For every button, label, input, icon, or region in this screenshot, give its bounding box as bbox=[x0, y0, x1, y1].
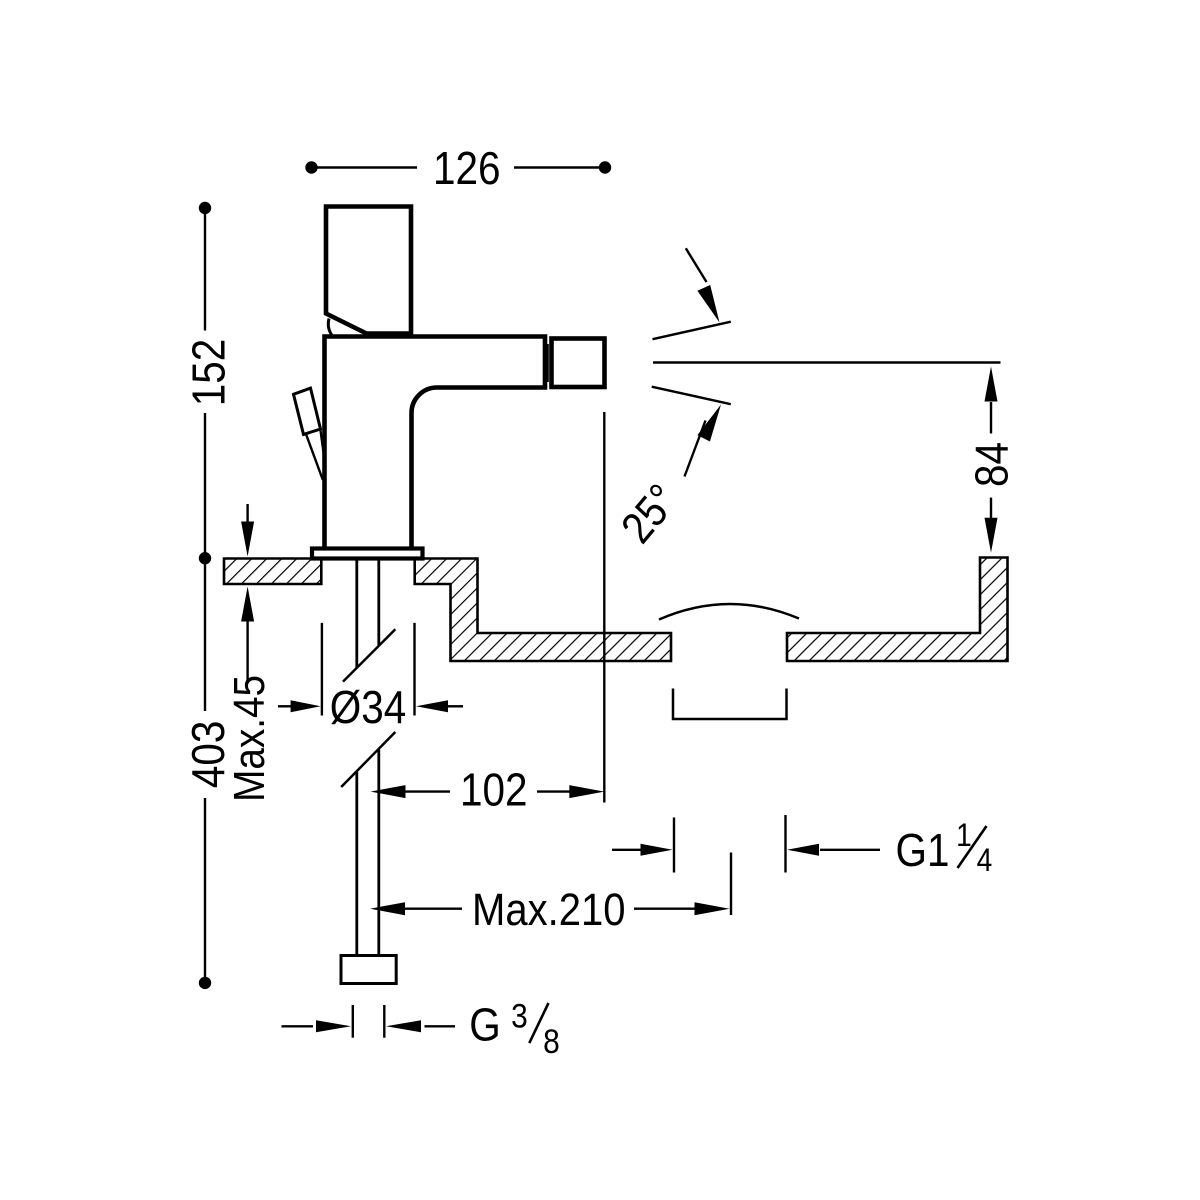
svg-text:8: 8 bbox=[543, 1022, 560, 1060]
svg-text:84: 84 bbox=[967, 442, 1018, 487]
svg-text:Ø34: Ø34 bbox=[330, 682, 406, 733]
svg-text:G1: G1 bbox=[896, 826, 950, 877]
svg-text:152: 152 bbox=[184, 339, 235, 407]
svg-text:102: 102 bbox=[460, 765, 528, 816]
svg-text:3: 3 bbox=[511, 997, 528, 1035]
svg-text:Max.45: Max.45 bbox=[224, 675, 274, 802]
svg-text:126: 126 bbox=[433, 144, 501, 195]
svg-text:G: G bbox=[469, 1000, 500, 1051]
svg-text:4: 4 bbox=[977, 843, 993, 878]
svg-text:Max.210: Max.210 bbox=[472, 885, 626, 936]
svg-text:1: 1 bbox=[956, 818, 972, 853]
